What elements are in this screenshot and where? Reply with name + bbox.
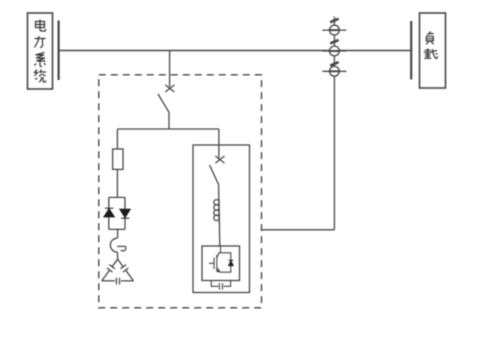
main bus wire xyxy=(59,50,411,52)
负 xyxy=(426,32,433,45)
left busbar xyxy=(57,21,59,81)
wire: left branch down xyxy=(116,129,118,149)
label 负载 glyphs xyxy=(424,32,438,59)
breaker QF1 arm xyxy=(158,94,169,112)
wire xyxy=(116,252,118,259)
label 电力系统 glyphs xyxy=(35,20,47,83)
junction bar xyxy=(117,128,218,130)
wire: bus drop to compensator xyxy=(169,51,171,88)
wire xyxy=(168,112,170,129)
breaker QF2 arm xyxy=(210,165,219,185)
dashed enclosure xyxy=(99,75,262,308)
dc capacitor xyxy=(211,281,230,290)
wire: right branch down into converter box xyxy=(218,129,220,158)
thyristor pair frame xyxy=(109,197,125,229)
电 xyxy=(36,20,46,32)
inductor L xyxy=(214,199,220,246)
thyristor left (up) xyxy=(104,208,114,217)
IGBT symbol xyxy=(209,246,231,272)
IGBT diode xyxy=(229,260,234,265)
载 xyxy=(424,48,438,59)
系 xyxy=(35,53,46,67)
breaker QF2 (X contact) xyxy=(215,156,224,163)
统 xyxy=(35,70,47,83)
breaker QF1 (X contact) xyxy=(165,85,174,92)
reactor loop xyxy=(110,238,117,252)
wire: converter link to series column xyxy=(262,229,335,231)
cap ticks left side xyxy=(109,265,115,269)
cap in base xyxy=(115,278,117,285)
fuse FU xyxy=(113,149,123,169)
thyristor right (down) xyxy=(120,209,130,218)
converter enclosure xyxy=(193,145,250,293)
wire xyxy=(117,229,119,238)
switch S2 (middle) xyxy=(322,40,346,56)
delta capacitor bank xyxy=(102,259,134,284)
wire xyxy=(116,169,118,197)
wire xyxy=(218,185,220,200)
IGBT module box xyxy=(202,246,240,281)
力 xyxy=(35,36,46,48)
wire: series column vertical xyxy=(333,17,335,230)
load box 负载 xyxy=(420,13,446,88)
right busbar xyxy=(410,21,412,80)
switch S1 (top) xyxy=(322,19,346,35)
switch S3 (bottom) xyxy=(322,62,346,76)
power system box 电力系统 xyxy=(28,13,53,89)
cap ticks right side xyxy=(121,265,127,269)
